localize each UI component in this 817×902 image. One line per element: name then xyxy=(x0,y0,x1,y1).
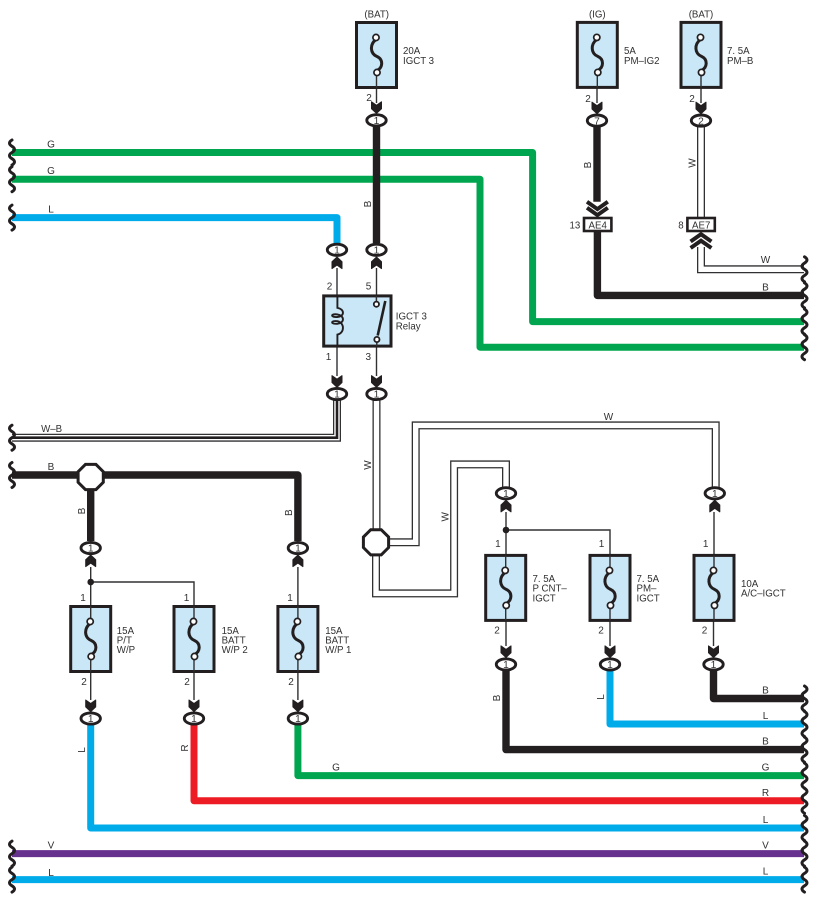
svg-text:2: 2 xyxy=(327,282,333,293)
svg-text:G: G xyxy=(762,763,770,774)
pin line P/T W/P fuse to arrow xyxy=(90,672,92,701)
wire B splice AE4 to right edge xyxy=(597,231,807,308)
connector 1 above BATT W/P 1 xyxy=(288,542,307,554)
pin line relay pin 1 xyxy=(336,346,338,376)
pin 2 label P CNT-IGCT xyxy=(494,625,500,636)
arrow into connector below fuse 7.5A PM-B xyxy=(696,102,706,114)
pin line relay pin 5 xyxy=(376,268,378,296)
svg-text:W: W xyxy=(688,158,699,168)
arrow down into connector below P/T W/P xyxy=(86,700,96,712)
svg-text:(BAT): (BAT) xyxy=(364,10,389,21)
pin line connector to BATT W/P 1 fuse xyxy=(297,567,299,607)
svg-text:1: 1 xyxy=(503,660,509,671)
svg-text:PM–IG2: PM–IG2 xyxy=(624,56,660,67)
connector 1 below PM-IGCT xyxy=(600,659,619,671)
connector 1 below P/T W/P xyxy=(81,713,100,725)
wire B P CNT-IGCT connector to right edge xyxy=(492,670,807,762)
svg-text:L: L xyxy=(763,711,769,722)
svg-text:2: 2 xyxy=(698,116,704,127)
connector 1 above relay pin 2 xyxy=(327,244,346,256)
svg-text:L: L xyxy=(48,868,54,879)
connector 1 above A/C-IGCT xyxy=(705,488,724,500)
svg-text:W–B: W–B xyxy=(41,424,62,435)
svg-text:G: G xyxy=(47,140,55,151)
connector 1 below relay pin 1 xyxy=(327,388,346,400)
svg-text:B: B xyxy=(363,200,374,207)
arrow into connector below fuse 20A xyxy=(372,102,382,114)
arrow down into connector below A/C-IGCT xyxy=(709,646,719,658)
relay pin 5 label xyxy=(366,282,372,293)
svg-text:1: 1 xyxy=(374,116,380,127)
svg-text:2: 2 xyxy=(702,625,708,636)
svg-text:13: 13 xyxy=(570,220,581,231)
wire L P/T W/P connector to right edge xyxy=(77,724,807,841)
connector 1 above relay pin 5 xyxy=(367,244,386,256)
svg-text:1: 1 xyxy=(295,544,301,555)
wire W relay pin 3 connector to octagon junction xyxy=(363,400,377,529)
svg-text:B: B xyxy=(762,686,769,697)
pin line fuse 20A to arrow xyxy=(376,88,378,104)
svg-text:W/P 1: W/P 1 xyxy=(325,645,351,656)
arrow up into P/T W/P connector xyxy=(86,555,96,567)
svg-text:1: 1 xyxy=(334,246,340,257)
svg-text:7: 7 xyxy=(594,116,600,127)
svg-text:1: 1 xyxy=(607,660,613,671)
svg-text:(BAT): (BAT) xyxy=(689,10,714,21)
pin line relay pin 3 xyxy=(376,346,378,376)
svg-text:1: 1 xyxy=(88,544,94,555)
pin 1 label PM-IGCT xyxy=(599,539,605,550)
svg-text:B: B xyxy=(762,282,769,293)
svg-text:R: R xyxy=(762,788,769,799)
svg-text:5: 5 xyxy=(366,282,372,293)
relay IGCT 3 xyxy=(324,296,427,346)
svg-text:1: 1 xyxy=(374,390,380,401)
wire W connector 2 to splice AE7 xyxy=(688,126,702,218)
pin 2 label P/T W/P xyxy=(81,677,87,688)
svg-text:3: 3 xyxy=(366,352,372,363)
svg-text:V: V xyxy=(762,841,769,852)
connector 1 above P CNT-IGCT xyxy=(496,488,515,500)
fuse 15A BATT W/P 1 xyxy=(278,607,352,672)
connector 1 below fuse 20A xyxy=(367,115,386,127)
arrow down into connector below BATT W/P 2 xyxy=(189,700,199,712)
wire B A/C-IGCT connector to right edge xyxy=(714,670,808,711)
wire G from left edge to right edge (lower) xyxy=(10,166,808,360)
fuse 7.5A PM-B (BAT) xyxy=(681,10,753,88)
wire V across bottom xyxy=(10,841,808,867)
pin 2 label BATT W/P 2 xyxy=(184,677,190,688)
pin 2 label fuse 7.5A PM-B xyxy=(689,94,695,105)
svg-text:B: B xyxy=(77,507,88,514)
svg-text:G: G xyxy=(47,166,55,177)
relay pin 2 label xyxy=(327,282,333,293)
wire B connector 7 to splice AE4 xyxy=(583,126,597,202)
wire R BATT W/P 2 connector to right edge xyxy=(180,724,807,813)
svg-text:IGCT 3: IGCT 3 xyxy=(403,56,434,67)
svg-text:B: B xyxy=(284,509,295,516)
svg-text:2: 2 xyxy=(598,625,604,636)
arrow down into relay pin 3 connector xyxy=(372,376,382,388)
junction dot at P/T W/P branch xyxy=(87,579,94,586)
connector 1 below relay pin 3 xyxy=(367,388,386,400)
svg-text:1: 1 xyxy=(88,714,94,725)
arrow down into connector below P CNT-IGCT xyxy=(501,646,511,658)
svg-text:IGCT: IGCT xyxy=(637,593,660,604)
pin line BATT W/P 1 fuse to arrow xyxy=(297,672,299,701)
pin line PM-IGCT fuse to arrow xyxy=(609,620,611,646)
svg-text:2: 2 xyxy=(689,94,695,105)
svg-text:8: 8 xyxy=(678,220,683,231)
svg-text:W/P 2: W/P 2 xyxy=(222,645,248,656)
fuse 15A P/T W/P xyxy=(71,607,135,672)
connector 1 above P/T W/P xyxy=(81,542,100,554)
arrow up into A/C-IGCT connector xyxy=(710,500,720,512)
svg-text:2: 2 xyxy=(81,677,87,688)
svg-text:G: G xyxy=(332,763,340,774)
pin 2 label fuse 20A xyxy=(366,93,372,104)
wire L from left edge to relay pin 2 connector xyxy=(10,205,338,244)
svg-text:L: L xyxy=(596,694,607,700)
pin 2 label fuse 5A PM-IG2 xyxy=(585,94,591,105)
wire G BATT W/P 1 connector to right edge xyxy=(298,724,807,788)
svg-text:2: 2 xyxy=(288,677,294,688)
svg-text:1: 1 xyxy=(503,489,509,500)
fuse 10A A/C-IGCT xyxy=(694,555,786,620)
pin line P CNT-IGCT fuse to arrow xyxy=(505,620,507,646)
connector 2 below fuse 7.5A PM-B xyxy=(691,115,710,127)
svg-text:1: 1 xyxy=(295,714,301,725)
connector 1 below BATT W/P 2 xyxy=(184,713,203,725)
svg-text:Relay: Relay xyxy=(396,321,421,332)
svg-text:1: 1 xyxy=(80,593,86,604)
pin 1 label A/C-IGCT xyxy=(703,539,709,550)
pin line connector to A/C-IGCT fuse xyxy=(713,512,715,555)
svg-text:1: 1 xyxy=(334,390,340,401)
svg-text:B: B xyxy=(583,161,594,168)
svg-text:R: R xyxy=(180,744,191,751)
pin 1 label P CNT-IGCT xyxy=(495,539,501,550)
arrow into connector below fuse 5A PM-IG2 xyxy=(592,102,602,114)
connector 1 below P CNT-IGCT xyxy=(496,659,515,671)
splice AE7 (8) xyxy=(678,218,715,248)
wire B fuse 20A IGCT3 to relay pin 5 connector xyxy=(363,126,377,243)
wire B left edge through octagon junction to BATT W/P 1 connector xyxy=(10,462,298,541)
svg-text:V: V xyxy=(48,841,55,852)
relay pin 1 label xyxy=(326,352,332,363)
arrow up into relay pin 2 connector xyxy=(332,257,342,269)
pin line connector to P/T W/P fuse with junction branch xyxy=(91,567,194,607)
wire L PM-IGCT connector to right edge xyxy=(596,670,807,737)
svg-text:AE4: AE4 xyxy=(589,220,608,231)
connector 7 below fuse 5A PM-IG2 xyxy=(587,115,606,127)
svg-text:2: 2 xyxy=(585,94,591,105)
relay pin 3 label xyxy=(366,352,372,363)
arrow down into connector below PM-IGCT xyxy=(605,646,615,658)
wire B octagon junction branch down to P/T W/P connector xyxy=(77,475,91,541)
svg-text:(IG): (IG) xyxy=(589,10,606,21)
octagon junction on wire W xyxy=(363,530,388,555)
arrow up into BATT W/P 1 connector xyxy=(293,555,303,567)
svg-text:1: 1 xyxy=(712,489,718,500)
svg-text:1: 1 xyxy=(326,352,332,363)
svg-text:1: 1 xyxy=(374,246,380,257)
junction dot at P CNT-IGCT branch xyxy=(503,527,510,534)
wire L across bottom xyxy=(10,867,808,893)
arrow up into relay pin 5 connector xyxy=(372,257,382,269)
wire W octagon junction to A/C-IGCT connector (upper path) xyxy=(389,412,716,542)
fuse 7.5A PM-IGCT xyxy=(590,555,660,620)
fuse 15A BATT W/P 2 xyxy=(174,607,248,672)
svg-text:1: 1 xyxy=(599,539,605,550)
svg-text:W: W xyxy=(441,512,452,522)
svg-text:1: 1 xyxy=(495,539,501,550)
fuse 5A PM-IG2 (IG) xyxy=(577,10,659,88)
arrow up into P CNT-IGCT connector xyxy=(501,500,511,512)
pin line fuse 7.5A PM-B to arrow xyxy=(700,87,702,103)
wire G from left edge to right edge (upper) xyxy=(10,140,808,335)
svg-text:B: B xyxy=(48,462,55,473)
svg-text:1: 1 xyxy=(287,593,293,604)
pin 2 label PM-IGCT xyxy=(598,625,604,636)
svg-text:W: W xyxy=(604,412,614,423)
svg-text:A/C–IGCT: A/C–IGCT xyxy=(741,588,786,599)
svg-text:2: 2 xyxy=(184,677,190,688)
fuse 7.5A P CNT-IGCT xyxy=(486,555,568,620)
octagon junction on wire B xyxy=(78,464,103,489)
svg-text:W/P: W/P xyxy=(117,645,135,656)
svg-text:AE7: AE7 xyxy=(692,220,710,231)
wire W right edge to splice AE7 xyxy=(701,247,807,282)
pin line connector to P CNT-IGCT fuse with junction branch xyxy=(506,512,610,555)
arrow down into relay pin 1 connector xyxy=(332,376,342,388)
svg-text:L: L xyxy=(77,747,88,753)
pin line A/C-IGCT fuse to arrow xyxy=(713,620,715,646)
svg-text:L: L xyxy=(763,867,769,878)
arrow down into connector below BATT W/P 1 xyxy=(293,700,303,712)
fuse 20A IGCT 3 (BAT) xyxy=(357,10,435,88)
pin 1 label BATT W/P 1 xyxy=(287,593,293,604)
svg-text:2: 2 xyxy=(494,625,500,636)
svg-text:1: 1 xyxy=(184,593,190,604)
pin 2 label BATT W/P 1 xyxy=(288,677,294,688)
connector 1 below BATT W/P 1 xyxy=(288,713,307,725)
pin line BATT W/P 2 fuse to arrow xyxy=(193,672,195,701)
pin 1 label P/T W/P xyxy=(80,593,86,604)
svg-text:PM–B: PM–B xyxy=(727,56,753,67)
svg-text:IGCT: IGCT xyxy=(533,593,556,604)
svg-text:L: L xyxy=(763,815,769,826)
svg-text:W: W xyxy=(363,460,374,470)
svg-text:1: 1 xyxy=(711,660,717,671)
pin line relay pin 2 xyxy=(336,268,338,296)
wire W-B relay pin 1 connector to left edge xyxy=(10,400,338,450)
pin line fuse 5A PM-IG2 to arrow xyxy=(596,87,598,103)
splice AE4 (13) xyxy=(570,202,612,232)
svg-text:W: W xyxy=(761,255,771,266)
svg-text:1: 1 xyxy=(191,714,197,725)
svg-text:B: B xyxy=(492,694,503,701)
svg-text:1: 1 xyxy=(703,539,709,550)
connector 1 below A/C-IGCT xyxy=(704,659,723,671)
svg-text:B: B xyxy=(762,737,769,748)
pin 2 label A/C-IGCT xyxy=(702,625,708,636)
svg-text:L: L xyxy=(48,205,54,216)
wire W octagon junction to P CNT-IGCT connector (lower path) xyxy=(376,464,506,593)
pin 1 label BATT W/P 2 xyxy=(184,593,190,604)
